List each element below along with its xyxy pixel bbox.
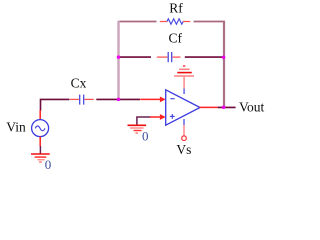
junction node at right vertical / Cf	[222, 56, 226, 60]
capacitor Cx	[70, 95, 94, 105]
junction node at left vertical / Cf	[117, 55, 121, 59]
wire left vertical	[117, 21, 119, 100]
op-amp noninverting input pin	[150, 114, 166, 120]
svg-text:Vin: Vin	[6, 120, 26, 135]
op-amp V+ power pin	[183, 77, 185, 95]
svg-text:Cx: Cx	[71, 75, 87, 90]
svg-text:Vout: Vout	[239, 100, 265, 115]
Vs terminal circle	[182, 136, 187, 141]
wire output to Vout	[218, 106, 236, 108]
resistor Rf	[160, 19, 191, 24]
wire top feedback right segment	[194, 21, 225, 23]
wire noninverting ground stub	[137, 117, 151, 125]
wire input horizontal from Vin corner	[41, 99, 70, 110]
svg-text:0: 0	[142, 128, 149, 143]
wire top feedback left segment	[119, 21, 157, 23]
op-amp inverting input pin	[140, 97, 165, 103]
wire right vertical	[223, 21, 225, 108]
svg-text:Cf: Cf	[169, 31, 183, 46]
ground (flipped) on op-amp V+	[174, 66, 194, 76]
capacitor Cf	[157, 52, 181, 62]
op-amp U1 triangle	[166, 90, 200, 125]
svg-text:Vs: Vs	[176, 142, 191, 157]
junction node at output	[222, 106, 226, 110]
svg-text:0: 0	[45, 157, 52, 172]
source Vin	[32, 110, 49, 146]
op-amp output pin	[200, 106, 218, 108]
wire Cf row left segment	[119, 56, 152, 58]
wire inverting input horizontal	[96, 98, 140, 100]
svg-text:Rf: Rf	[169, 1, 183, 16]
wire Cf row right segment	[185, 56, 224, 58]
wire Vin ground stem	[39, 146, 41, 154]
junction node at left vertical / input wire	[117, 98, 121, 102]
ground 0 at noninverting input	[128, 125, 147, 133]
ground 0 under Vin	[31, 154, 50, 162]
op-amp V- power pin	[183, 119, 185, 136]
